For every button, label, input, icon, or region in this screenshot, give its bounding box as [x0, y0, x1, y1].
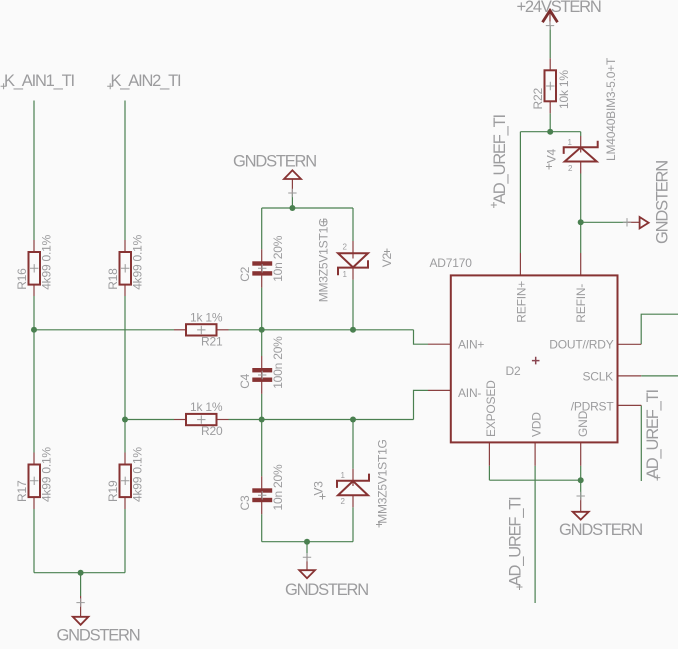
wire AIN- step up: [414, 390, 429, 419]
svg-text:V3: V3: [312, 481, 326, 496]
svg-text:2: 2: [568, 164, 573, 173]
wire +24V to R22: [549, 26, 551, 58]
wire net K_AIN2 vertical: [124, 101, 126, 241]
svg-text:100n 20%: 100n 20%: [271, 336, 285, 389]
svg-text:10k 1%: 10k 1%: [557, 70, 571, 109]
wire EXPOSED to node I: [489, 479, 580, 481]
wire V4 bottom to node H: [580, 174, 582, 223]
pin V4.1: [580, 136, 582, 153]
wire net K_AIN1 vertical: [33, 101, 35, 241]
wire R18 bottom to node B: [124, 296, 126, 420]
wire V3 bottom: [352, 507, 354, 541]
pin V2.2: [352, 241, 354, 259]
resistor R17: [29, 465, 41, 498]
cross gnd stem under IC: [577, 492, 585, 500]
wire C2 bottom to node C: [261, 288, 263, 330]
node I junction: [578, 477, 584, 483]
cross R16 center: [30, 264, 38, 272]
wire VDD net AD_UREF_TI: [534, 466, 536, 603]
svg-text:SCLK: SCLK: [582, 370, 613, 384]
pin V2.1: [352, 268, 354, 280]
junction gnd top: [289, 205, 295, 211]
svg-text:GND: GND: [576, 410, 590, 437]
pin R18.1: [124, 240, 126, 252]
pin D2 /PDRST: [618, 404, 642, 406]
wire R22 bottom to node G: [549, 113, 551, 131]
cross gnd stem top: [288, 189, 296, 197]
wire gnd stem top green part: [291, 194, 293, 208]
wire node I gnd stem: [580, 480, 582, 498]
wire R16 bottom to node A: [33, 296, 35, 330]
svg-text:4k99 0.1%: 4k99 0.1%: [131, 234, 145, 289]
pin R21.1: [174, 329, 186, 331]
svg-text:1k 1%: 1k 1%: [190, 310, 223, 324]
wire REFIN- vertical: [580, 222, 582, 253]
node H junction: [578, 219, 584, 225]
pin gnd stem under IC: [580, 498, 582, 512]
svg-text:2: 2: [343, 243, 348, 252]
node E junction: [259, 417, 265, 423]
cross AD_UREF_TI label origin vdd: [517, 584, 523, 590]
cross R19 center: [121, 477, 129, 485]
cross K_AIN2_TI label origin: [107, 83, 113, 89]
svg-text:R16: R16: [15, 268, 29, 290]
svg-text:R22: R22: [531, 88, 545, 110]
pin V4.2: [580, 162, 582, 174]
svg-text:10n 20%: 10n 20%: [271, 235, 285, 282]
svg-text:1: 1: [568, 138, 573, 147]
ground symbol under C3 GNDSTERN: [299, 570, 315, 578]
wire R20 to AIN- row: [229, 419, 414, 421]
cross V4 label origin: [546, 164, 552, 170]
cross D2 origin: [532, 357, 540, 365]
svg-text:AD_UREF_TI: AD_UREF_TI: [644, 390, 662, 479]
pin C2.2: [261, 268, 263, 287]
pin R22.1: [549, 58, 551, 70]
cross V3 label origin: [320, 494, 326, 500]
node A junction: [31, 327, 37, 333]
pin R19.1: [124, 453, 126, 465]
svg-text:LM4040BIM3-5.0+T: LM4040BIM3-5.0+T: [604, 57, 618, 161]
pin V3.2: [352, 495, 354, 507]
pin +24VSTERN stem: [549, 10, 551, 26]
wire node G to V4: [580, 132, 582, 136]
node F junction: [350, 417, 356, 423]
wire gnd stem bottom-left: [80, 573, 82, 596]
wire node H to right gnd: [581, 221, 628, 223]
svg-text:2: 2: [341, 497, 346, 506]
pin D2 SCLK: [618, 375, 642, 377]
wire node G horizontal: [520, 131, 580, 133]
svg-text:EXPOSED: EXPOSED: [484, 380, 498, 437]
svg-text:R17: R17: [15, 480, 29, 502]
svg-text:REFIN-: REFIN-: [574, 284, 588, 323]
wire R17 bottom: [33, 509, 35, 573]
zener diode V2: [338, 253, 368, 275]
pin C3.2: [261, 495, 263, 514]
pin D2 VDD: [534, 442, 536, 465]
resistor R19: [120, 465, 132, 498]
cross V2 value label origin: [321, 219, 327, 225]
zener diode V3: [337, 474, 369, 496]
resistor R20: [186, 414, 217, 425]
wire node A down to R17: [33, 330, 35, 453]
ground symbol top GNDSTERN: [284, 170, 301, 179]
pin R20.2: [217, 419, 229, 421]
cross C3 center: [258, 491, 266, 499]
wire R21 to AIN+ row: [229, 329, 414, 331]
ground symbol bottom-left GNDSTERN: [73, 617, 89, 625]
pin gnd stem bottom-left: [80, 596, 82, 617]
pin D2 AIN+: [428, 343, 451, 345]
svg-text:C3: C3: [238, 495, 252, 510]
cross K_AIN1_TI label origin: [1, 83, 7, 89]
svg-text:C2: C2: [238, 266, 252, 281]
wire node B down to R19: [124, 420, 126, 453]
wire gnd stem under C3: [306, 542, 308, 556]
wire /PDRST net AD_UREF_TI down: [640, 405, 642, 481]
wire V3 top to node F: [352, 420, 354, 469]
pin D2 EXPOSED: [488, 442, 490, 465]
wire REFIN+ vertical: [519, 132, 521, 253]
svg-text:GNDSTERN: GNDSTERN: [559, 521, 642, 539]
node C junction: [259, 327, 265, 333]
svg-text:K_AIN2_TI: K_AIN2_TI: [111, 72, 182, 90]
svg-text:4k99 0.1%: 4k99 0.1%: [131, 447, 145, 502]
pin V3.1: [352, 469, 354, 486]
svg-text:R18: R18: [106, 268, 120, 290]
cross R17 center: [30, 477, 38, 485]
capacitor C4: [252, 368, 272, 382]
pin R20.1: [174, 419, 186, 421]
svg-text:4k99 0.1%: 4k99 0.1%: [40, 234, 54, 289]
pin gnd stem top: [291, 179, 293, 194]
resistor R21: [186, 324, 217, 335]
pin R21.2: [217, 329, 229, 331]
wire EXPOSED down: [488, 466, 490, 480]
resistor R16: [29, 252, 41, 285]
svg-text:MM3Z5V1ST1G: MM3Z5V1ST1G: [317, 218, 331, 303]
pin gnd stem under C3: [306, 556, 308, 570]
pin R17.2: [33, 497, 35, 509]
wire gnd top horizontal: [262, 207, 353, 209]
wire node E to C3: [261, 420, 263, 477]
capacitor C3: [252, 488, 272, 502]
svg-text:VDD: VDD: [530, 412, 544, 437]
ground symbol right GNDSTERN: [640, 217, 649, 228]
wire R19 bottom: [124, 509, 126, 573]
pin gnd stem right: [628, 221, 640, 223]
cross AD_UREF_TI label origin left: [491, 202, 497, 208]
wire AIN+ step down: [414, 330, 429, 344]
wire C3 bottom: [261, 514, 263, 542]
svg-text:D2: D2: [506, 364, 521, 378]
wire gnd top to C2: [261, 208, 263, 249]
zener diode V4: [564, 141, 598, 162]
pin R16.1: [33, 240, 35, 252]
pin R19.2: [124, 497, 126, 509]
svg-text:V2: V2: [380, 252, 394, 267]
pin D2 REFIN+: [519, 253, 521, 275]
pin D2 REFIN-: [580, 253, 582, 275]
svg-text:MM3Z5V1ST1G: MM3Z5V1ST1G: [376, 439, 390, 524]
pin R22.2: [549, 101, 551, 113]
supply symbol +24VSTERN arrow: [543, 11, 558, 23]
pin C2.1: [261, 249, 263, 268]
svg-text:4k99 0.1%: 4k99 0.1%: [40, 447, 54, 502]
svg-text:GNDSTERN: GNDSTERN: [233, 152, 316, 170]
svg-text:GNDSTERN: GNDSTERN: [57, 627, 140, 645]
op-amp-ic D2 AD7170 box: [451, 275, 618, 442]
junction gnd under C3: [304, 539, 310, 545]
wire C4 bottom to node E: [261, 394, 263, 420]
node B junction: [122, 417, 128, 423]
pin C4.1: [261, 356, 263, 375]
ground symbol under IC GNDSTERN: [573, 512, 589, 520]
cross V2 label origin: [384, 249, 390, 255]
svg-text:REFIN+: REFIN+: [515, 281, 529, 323]
svg-text:+24VSTERN: +24VSTERN: [517, 0, 601, 16]
svg-text:10n 20%: 10n 20%: [271, 464, 285, 511]
svg-text:GNDSTERN: GNDSTERN: [285, 581, 368, 599]
pin D2 AIN-: [428, 389, 451, 391]
pin R18.2: [124, 285, 126, 296]
node G junction: [547, 129, 553, 135]
pin R16.2: [33, 285, 35, 296]
svg-text:1: 1: [343, 270, 348, 279]
wire SCLK right: [641, 375, 678, 377]
svg-text:AIN-: AIN-: [458, 386, 481, 400]
svg-text:GNDSTERN: GNDSTERN: [653, 161, 671, 244]
pin R17.1: [33, 453, 35, 465]
svg-text:DOUT//RDY: DOUT//RDY: [549, 338, 613, 352]
cross R18 center: [121, 264, 129, 272]
resistor R22: [545, 70, 557, 101]
cross R21 center: [197, 326, 205, 334]
cross C2 center: [258, 264, 266, 272]
wire bottom gnd horizontal C3-V3: [262, 541, 353, 543]
pin C3.1: [261, 476, 263, 495]
cross C4 center: [258, 371, 266, 379]
capacitor C2: [252, 261, 272, 275]
svg-text:AD7170: AD7170: [430, 256, 473, 270]
cross R20 center: [197, 415, 205, 423]
svg-text:1: 1: [341, 471, 346, 480]
svg-text:AIN+: AIN+: [458, 338, 484, 352]
cross R22 center: [546, 82, 554, 90]
wire GND pin to node I: [580, 466, 582, 480]
pin D2 DOUT//RDY: [618, 343, 642, 345]
wire node B to R20: [125, 419, 174, 421]
svg-text:V4: V4: [545, 148, 559, 163]
cross gnd stem bottom-left: [76, 598, 84, 606]
pin D2 GND: [580, 442, 582, 465]
svg-text:C4: C4: [238, 373, 252, 388]
cross gnd stem right: [623, 218, 631, 226]
svg-text:R20: R20: [201, 424, 223, 438]
svg-text:AD_UREF_TI: AD_UREF_TI: [491, 115, 509, 204]
node D junction: [350, 327, 356, 333]
cross V3 value label origin: [376, 522, 382, 528]
cross gnd stem under C3: [303, 553, 311, 561]
wire V2 bottom to node D: [352, 280, 354, 330]
cross +24VSTERN stem: [546, 21, 554, 29]
pin C4.2: [261, 375, 263, 394]
svg-text:R21: R21: [201, 335, 223, 349]
wire bottom-left gnd horizontal: [34, 572, 125, 574]
wire gnd top to V2: [352, 208, 354, 241]
resistor R18: [120, 252, 132, 285]
wire DOUT//RDY up: [641, 314, 678, 344]
cross AD_UREF_TI label origin right: [654, 475, 660, 481]
wire node A to R21: [34, 329, 174, 331]
svg-text:K_AIN1_TI: K_AIN1_TI: [4, 72, 75, 90]
svg-text:R19: R19: [106, 480, 120, 502]
wire node C to C4: [261, 330, 263, 356]
svg-text:AD_UREF_TI: AD_UREF_TI: [506, 497, 524, 586]
svg-text:1k 1%: 1k 1%: [190, 400, 223, 414]
junction gnd bottom-left: [78, 570, 84, 576]
